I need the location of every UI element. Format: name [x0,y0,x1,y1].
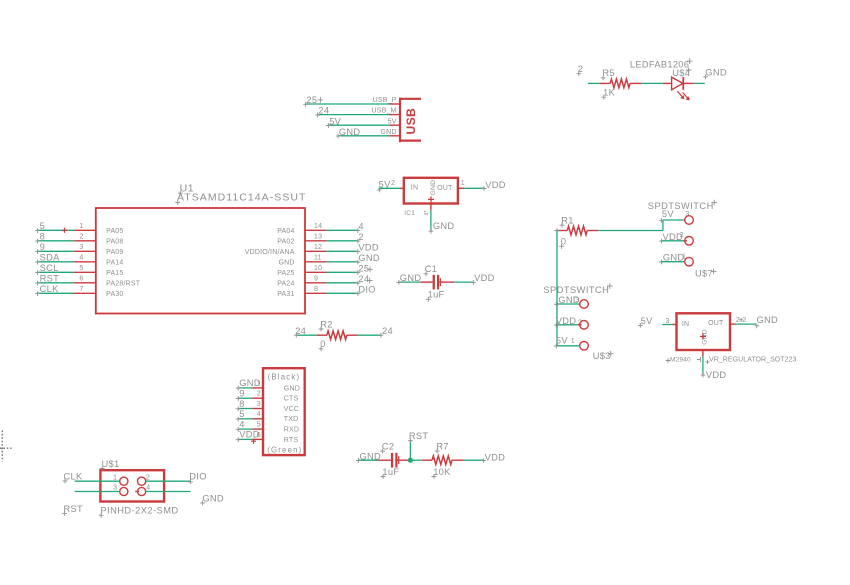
cross net 24 label origin [367,278,373,284]
svg-text:13: 13 [314,234,322,241]
pin 3 U1 PA09 [74,244,123,256]
svg-text:5: 5 [257,422,261,429]
svg-text:PA28/RST: PA28/RST [106,280,141,287]
frame dashed cross left edge [0,431,12,462]
pin 10 U1 PA25 [277,265,326,277]
connector USB bracket [399,98,421,143]
svg-text:OUT: OUT [437,185,453,192]
svg-text:2: 2 [358,232,363,242]
capacitor C2 [378,441,408,479]
svg-text:RTS: RTS [284,437,299,444]
switch U$3 pin 1 5V [554,336,588,351]
svg-text:11: 11 [314,255,322,262]
svg-text:1uF: 1uF [428,290,445,300]
pin 3 FTDI VCC [252,401,299,413]
svg-text:5V: 5V [329,116,341,126]
wire net 2 from U1 pin 13 [326,232,364,244]
svg-text:GND: GND [705,67,727,77]
svg-text:7: 7 [79,286,83,293]
svg-text:RXD: RXD [284,427,299,434]
pin 2 U1 PA08 [74,234,123,246]
svg-text:IC1: IC1 [404,210,415,217]
pin 6 U1 PA28/RST [74,276,141,288]
svg-text:PA05: PA05 [106,228,123,235]
svg-text:GND: GND [380,129,396,136]
svg-text:4: 4 [79,255,83,262]
svg-text:SPDTSWITCH: SPDTSWITCH [543,285,609,295]
svg-text:PA04: PA04 [277,228,294,235]
wire net 24 to USB USB_M [315,106,389,118]
svg-text:GND: GND [757,315,779,325]
svg-text:VDD: VDD [474,273,495,283]
connector FTDI box [263,368,305,455]
svg-text:CTS: CTS [284,396,299,403]
wire net 5 to FTDI TXD [236,409,253,421]
pin 4 FTDI TXD [252,411,298,423]
svg-text:VDD: VDD [239,430,260,440]
svg-text:9: 9 [40,242,45,252]
svg-text:VDD: VDD [485,180,506,190]
pin 1 U$1 [113,474,128,485]
wire net 5 to U1 pin 1 [35,221,74,233]
svg-text:GND: GND [202,493,224,503]
svg-text:DIO: DIO [358,284,375,294]
label USB rotated [404,108,418,135]
svg-text:5: 5 [239,409,244,419]
wire net VDD from C1 [454,273,494,285]
svg-text:IN: IN [682,321,689,328]
svg-text:VR_REGULATOR_SOT223: VR_REGULATOR_SOT223 [709,357,797,364]
wire net GND to C2 [356,452,381,463]
cross net 25 label origin [367,267,373,273]
svg-text:U$7: U$7 [695,268,713,278]
svg-text:8: 8 [40,232,45,242]
wire net VDD from U1 pin 12 [326,242,379,254]
label U$4 [672,67,691,78]
wire net GND from M2940 OUT [736,315,779,328]
svg-text:3: 3 [113,485,117,492]
pin USB GND [380,129,400,136]
svg-text:5V: 5V [379,179,391,189]
svg-text:5V: 5V [641,316,653,326]
svg-text:VCC: VCC [284,406,299,413]
wire net RST to U1 pin 6 [35,274,74,286]
label U$3 [593,351,614,361]
pin 4 U1 PA14 [74,255,123,267]
svg-text:RST: RST [40,274,60,284]
svg-text:4: 4 [239,419,244,429]
wire net RST up from junction [408,431,428,460]
wire net VDD to FTDI RTS [236,430,260,442]
svg-text:5V: 5V [556,336,568,346]
svg-text:PA31: PA31 [277,291,294,298]
label U1 value ATSAMD11C14A-SSUT [175,192,306,205]
connector U$1 PINHD-2X2-SMD box [100,470,164,501]
svg-text:5V: 5V [388,118,397,125]
svg-text:VDD: VDD [358,242,379,252]
resistor R1 0 ohm [555,215,599,248]
resistor R2 0 ohm [317,319,358,351]
svg-text:(Black): (Black) [268,372,301,381]
label PINHD-2X2-SMD [99,506,179,518]
svg-text:R2: R2 [320,319,332,329]
regulator IC1 box [404,178,458,204]
pin 12 U1 VDDIO/IN/ANA [245,244,327,256]
svg-text:GND: GND [239,378,261,388]
svg-text:GND: GND [278,259,294,266]
pin 8 U1 PA31 [277,286,326,298]
label IC1 value dots [424,211,428,215]
wire net VDD from M2940 [701,356,727,379]
wire net DIO from U1 pin 8 [326,284,376,296]
svg-text:5: 5 [79,265,83,272]
wire net GND to USB GND [336,127,390,139]
pin 9 U1 PA24 [277,276,326,288]
svg-text:GND: GND [430,180,437,196]
svg-text:VDD: VDD [706,370,727,380]
switch U$3 pin 2 VDD [554,316,588,329]
svg-text:25: 25 [306,95,317,105]
wire net 5V to M2940 IN [638,316,672,328]
svg-text:PA14: PA14 [106,259,123,266]
svg-text:M2940: M2940 [670,357,691,364]
svg-text:SCL: SCL [40,263,59,273]
svg-text:1: 1 [461,180,465,187]
svg-text:IN: IN [411,184,418,191]
svg-text:25: 25 [358,263,369,273]
red cross M2940 gnd origin [700,334,706,340]
wire net CLK to U1 pin 7 [35,284,74,296]
pin USB 5V [388,118,400,125]
label U$7 [695,268,716,278]
svg-text:5V: 5V [662,209,674,219]
svg-text:ATSAMD11C14A-SSUT: ATSAMD11C14A-SSUT [177,192,307,204]
svg-text:PA08: PA08 [106,238,123,245]
wire net 5V to USB 5V [326,116,389,128]
wire net GND to C1 [396,273,421,285]
svg-text:12: 12 [314,244,322,251]
junction node RST [408,458,413,463]
svg-text:9: 9 [314,276,318,283]
svg-text:U$4: U$4 [672,68,690,78]
wire net 4 to FTDI RXD [236,419,253,431]
svg-text:10: 10 [314,265,322,272]
wire net 8 to U1 pin 2 [35,232,74,244]
svg-text:PA24: PA24 [277,280,294,287]
svg-text:1uF: 1uF [382,467,399,477]
svg-text:R5: R5 [602,68,614,78]
pin 1 FTDI GND [252,380,300,392]
pin 6 FTDI RTS [252,432,298,444]
label VR_REGULATOR_SOT223 [705,357,796,365]
wire net GND from U$1 pin4 [146,492,224,506]
svg-text:USB_P: USB_P [373,97,397,104]
wire net GND from U1 pin 11 [326,253,380,265]
svg-text:CLK: CLK [64,472,83,482]
pin GND IC1 bottom [430,204,432,210]
svg-text:1: 1 [571,338,575,345]
wire net VDD from R7 [463,452,505,463]
svg-text:24: 24 [358,274,369,284]
wire junction to R7 [413,459,422,461]
red cross junction on net 5 [62,228,67,233]
svg-text:R1: R1 [561,215,573,225]
svg-text:CLK: CLK [40,284,59,294]
svg-text:SPDTSWITCH: SPDTSWITCH [648,201,714,211]
capacitor C1 [420,264,454,302]
switch U$7 SPDTSWITCH label [648,200,717,211]
svg-text:8: 8 [239,399,244,409]
label IC1 name [404,210,415,217]
wire net SDA to U1 pin 4 [35,253,74,265]
svg-text:VDD: VDD [485,452,506,462]
pin 1 IC1 OUT [458,180,465,189]
svg-text:2: 2 [79,234,83,241]
wire net 25 from U1 pin 10 [326,263,369,275]
svg-text:24: 24 [295,326,306,336]
svg-text:GND: GND [400,273,422,283]
red cross IC1 gnd origin [428,196,434,202]
resistor R7 10K [422,441,463,479]
svg-text:1: 1 [79,223,83,230]
svg-text:SDA: SDA [40,253,61,263]
svg-text:GND: GND [433,221,455,231]
svg-text:VDDIO/IN/ANA: VDDIO/IN/ANA [245,249,295,256]
red cross FTDI pin6 [251,439,256,444]
pin 2 U$1 [138,474,151,485]
svg-text:RST: RST [409,431,429,441]
wire net GND from IC1 [429,210,455,234]
wire net GND to FTDI GND [236,378,261,390]
svg-text:R7: R7 [436,441,448,451]
pin 11 U1 GND [278,255,326,267]
svg-text:PA15: PA15 [106,270,123,277]
svg-text:GND: GND [358,253,380,263]
svg-text:C2: C2 [382,441,394,451]
wire net DIO from U$1 pin2 [146,472,207,485]
svg-text:DIO: DIO [189,472,206,482]
wire net VDD from IC1 OUT [464,180,505,191]
switch U$7 pin 3 5V [659,209,693,224]
svg-text:4: 4 [358,221,363,231]
svg-text:6: 6 [79,276,83,283]
svg-text:USB: USB [404,108,418,135]
resistor R5 1K [600,68,641,99]
LED U$4 LEDFAB1206 [663,77,693,100]
wire net 24 from R2 right [358,326,393,337]
wire R1 left down to switch U$3 [556,231,558,346]
pin 2 M2940 OUT [730,317,747,324]
svg-text:GND: GND [284,385,300,392]
svg-text:C1: C1 [425,264,437,274]
pin 2 IC1 IN [391,180,404,189]
svg-text:2: 2 [736,317,740,324]
label U$1 name [100,459,120,471]
svg-text:OUT: OUT [708,320,724,327]
wire net GND from LED [693,67,727,83]
svg-text:14: 14 [314,223,322,230]
label U1 name [178,182,194,195]
svg-text:1: 1 [113,474,117,481]
label M2940 name [666,357,691,364]
pin 3 M2940 IN [666,318,677,325]
svg-text:2: 2 [257,391,261,398]
svg-text:(Green): (Green) [267,446,302,455]
pin 1 U1 PA05 [74,223,123,235]
switch U$3 SPDTSWITCH label [543,283,612,295]
svg-text:TXD: TXD [284,416,299,423]
svg-text:PA25: PA25 [277,270,294,277]
label LEDFAB1206 [630,58,693,69]
svg-text:1K: 1K [603,88,615,98]
svg-text:2: 2 [680,232,684,239]
svg-text:3: 3 [257,401,261,408]
svg-text:U$1: U$1 [102,459,120,469]
pin 7 U1 PA30 [74,286,123,298]
cross net 25 usb label [318,97,324,103]
svg-text:3: 3 [575,297,579,304]
wire net 24 from U1 pin 9 [326,274,369,286]
switch U$3 pin 3 GND [554,295,588,309]
svg-text:PA02: PA02 [277,238,294,245]
svg-text:GND: GND [339,127,361,137]
pin GND M2940 bottom [702,350,704,356]
switch U$7 pin 1 GND [659,252,693,266]
wire net 9 to U1 pin 3 [35,242,74,254]
wire net SCL to U1 pin 5 [35,263,74,275]
wire net 2 to R5 [576,64,600,84]
svg-text:RST: RST [64,504,84,514]
wire R1 right to switch U$7 [598,220,684,231]
regulator M2940 box [677,313,731,350]
switch U$7 pin 2 VDD [659,232,693,245]
pin 5 U1 PA15 [74,265,123,277]
wire net RST to U$1 pin3 [62,492,119,516]
pin USB USB_M [371,108,400,115]
svg-text:GND: GND [360,452,382,462]
svg-text:PINHD-2X2-SMD: PINHD-2X2-SMD [100,506,178,516]
wire net CLK to U$1 pin1 [63,472,120,484]
svg-text:2: 2 [146,474,150,481]
svg-text:3: 3 [79,244,83,251]
svg-text:24: 24 [318,106,329,116]
svg-text:PA09: PA09 [106,249,123,256]
svg-text:PA30: PA30 [106,291,123,298]
svg-text:10K: 10K [433,467,451,477]
svg-text:4: 4 [257,411,261,418]
svg-text:8: 8 [314,286,318,293]
wire net 9 to FTDI CTS [236,389,253,401]
svg-text:U$3: U$3 [593,351,611,361]
wire net 8 to FTDI VCC [236,399,253,411]
label M2940 tick [697,357,700,362]
pin 5 FTDI RXD [252,422,299,434]
svg-text:9: 9 [239,389,244,399]
IC U1 ATSAMD11C14A-SSUT box [96,208,305,314]
pin 14 U1 PA04 [277,223,326,235]
svg-text:24: 24 [382,326,393,336]
wire net 5V to IC1 IN [377,179,400,192]
wire R5 to LED [641,82,663,84]
pin 13 U1 PA02 [277,234,326,246]
svg-text:USB_M: USB_M [371,108,396,115]
wire net 24 to R2 left [294,326,317,337]
wire net 4 from U1 pin 14 [326,221,364,233]
pin USB USB_P [373,97,400,104]
pin 3 U$1 [113,485,128,496]
svg-text:2: 2 [742,317,746,324]
pin 4 U$1 [135,485,150,496]
svg-text:4: 4 [146,485,150,492]
wire net 25 to USB USB_P [303,95,389,107]
svg-text:2: 2 [391,180,395,187]
svg-text:5: 5 [40,221,45,231]
pin 2 FTDI CTS [252,391,298,403]
